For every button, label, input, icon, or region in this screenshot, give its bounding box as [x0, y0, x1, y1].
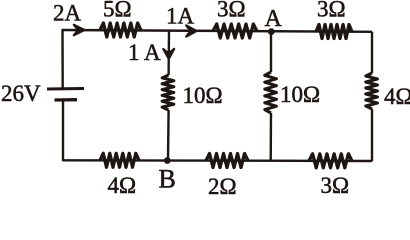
current arrow 1A right (top wire)	[186, 25, 196, 36]
battery 26V long plate	[47, 87, 84, 90]
current arrow 2A right	[74, 25, 85, 36]
resistor 2ohm bottom zigzag	[206, 154, 248, 168]
svg-text:3Ω: 3Ω	[321, 173, 350, 196]
resistor 4ohm bottom zigzag	[100, 153, 139, 167]
svg-text:4Ω: 4Ω	[108, 173, 137, 196]
svg-text:2Ω: 2Ω	[208, 174, 237, 196]
resistor 10ohm right coil	[265, 72, 277, 113]
resistor 4ohm right coil	[366, 73, 378, 109]
wire middle branch 1 (node B branch) vertical	[168, 31, 169, 161]
svg-text:1 A: 1 A	[128, 40, 161, 65]
wire top horizontal	[62, 30, 372, 32]
resistor 3ohm top-left zigzag	[213, 24, 257, 38]
wire left vertical lower (from battery)	[62, 101, 64, 161]
node A junction dot	[268, 28, 275, 35]
resistor 10ohm left coil	[162, 75, 174, 110]
current arrow 1A down	[163, 49, 174, 59]
svg-text:26V: 26V	[1, 81, 41, 106]
svg-text:10Ω: 10Ω	[183, 83, 223, 108]
resistor 3ohm top-right zigzag	[316, 25, 352, 39]
svg-text:1A: 1A	[166, 4, 195, 29]
svg-text:3Ω: 3Ω	[317, 0, 346, 22]
svg-text:3Ω: 3Ω	[217, 0, 246, 22]
wire right vertical	[371, 32, 373, 161]
svg-text:A: A	[265, 6, 283, 32]
resistor 3ohm bottom zigzag	[309, 154, 352, 168]
wire left vertical upper (to battery)	[61, 29, 64, 88]
svg-text:2A: 2A	[53, 1, 82, 26]
svg-text:4Ω: 4Ω	[384, 84, 410, 109]
svg-text:5Ω: 5Ω	[103, 0, 132, 22]
resistor 5ohm zigzag	[100, 23, 141, 37]
svg-text:10Ω: 10Ω	[280, 82, 320, 107]
node B junction dot	[164, 157, 171, 164]
svg-text:B: B	[159, 165, 176, 194]
wire middle branch 2 (node A branch) vertical	[270, 32, 273, 161]
wire bottom horizontal	[63, 159, 372, 162]
battery 26V short plate	[55, 98, 78, 102]
